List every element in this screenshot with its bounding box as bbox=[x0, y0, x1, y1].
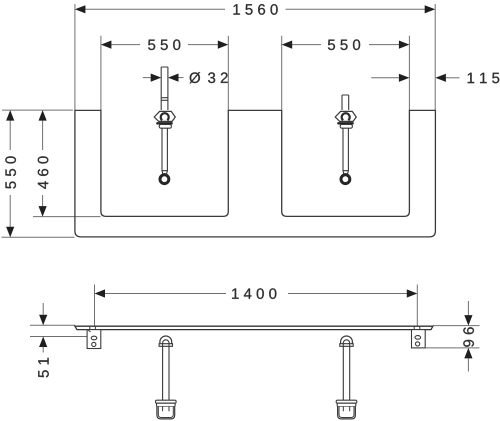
dim 550 left arrows bbox=[101, 41, 112, 49]
trap 2 pipe inside cup bbox=[343, 407, 349, 412]
dim 550 vertical extension top bbox=[2, 109, 73, 111]
drain 1 pipe joint bbox=[161, 97, 168, 99]
dim 550 left label bbox=[148, 39, 180, 50]
trap 1 arch inner bbox=[163, 340, 169, 346]
trap 1 nut bbox=[156, 400, 177, 403]
drain 2 flange hexagon bbox=[335, 111, 356, 121]
dim 96 line below bbox=[467, 358, 469, 371]
dim 550 vertical arrows bbox=[6, 110, 14, 121]
dim 1400 extension line left bbox=[94, 285, 96, 327]
dim 460 vertical arrows bbox=[39, 110, 47, 121]
trap 1 cup inner bbox=[158, 407, 173, 418]
dim 550 vertical line bbox=[9, 120, 11, 150]
drain 2 flange ring bbox=[342, 113, 350, 120]
trap 2 pipe bbox=[343, 346, 349, 409]
dim 115 line left bbox=[371, 77, 399, 79]
dim 51 arrows bbox=[39, 315, 47, 326]
trap 2 cup inner bbox=[339, 407, 354, 418]
dim 96 extension top bbox=[433, 325, 480, 327]
dim 550 vertical extension bottom bbox=[2, 236, 75, 238]
bracket left slot bbox=[91, 336, 97, 340]
dim 51 line above bbox=[42, 303, 44, 315]
drain 2 connector bbox=[343, 171, 348, 174]
drain 1 pipe lower bbox=[162, 128, 167, 171]
dim 460 vertical extension bottom bbox=[33, 216, 101, 218]
drain 1 flange ring bbox=[161, 113, 169, 120]
trap 1 arch outer bbox=[160, 336, 172, 344]
trap 2 nut bbox=[336, 400, 357, 403]
drain 1 connector bbox=[162, 171, 167, 174]
drain 2 pull ring bbox=[341, 175, 350, 184]
dim 51 extension bottom bbox=[30, 336, 87, 338]
dim diameter 32 line right bbox=[179, 77, 184, 79]
dim 1560 label bbox=[233, 4, 277, 15]
drain 1 flange hexagon bbox=[154, 111, 175, 121]
bottom plate bbox=[75, 326, 433, 329]
dim diameter 32 line left bbox=[143, 77, 151, 79]
dim 1560 arrow left bbox=[75, 5, 86, 13]
drain 2 dark gasket bbox=[337, 122, 354, 124]
dim 460 vertical label bbox=[38, 156, 49, 189]
dim 550 left extension lines bbox=[100, 36, 102, 111]
dim 550 right extension lines bbox=[281, 36, 283, 111]
trap 1 arch rim bbox=[159, 344, 172, 347]
dim 51 extension top bbox=[30, 324, 75, 326]
drain 2 lower gasket bbox=[340, 124, 352, 128]
dim diameter 32 label bbox=[190, 72, 201, 83]
drain 1 pipe upper bbox=[161, 67, 168, 110]
bracket right hole bbox=[416, 342, 420, 346]
dim diameter 32 arrow right bbox=[168, 74, 179, 82]
dim 1400 extension line right bbox=[416, 285, 418, 327]
dim 115 line right bbox=[446, 77, 460, 79]
dim 1400 arrows bbox=[95, 289, 106, 297]
dim 1560 extension line right bbox=[434, 4, 436, 110]
dim 115 arrow right bbox=[435, 74, 446, 82]
dim 1560 extension line left bbox=[74, 4, 76, 110]
dim 550 right label bbox=[328, 39, 360, 50]
dim 460 vertical line bbox=[42, 120, 44, 150]
dim 1560 line bbox=[85, 8, 225, 10]
trap 2 arch rim bbox=[340, 344, 353, 347]
trap 2 arch inner bbox=[343, 340, 349, 347]
bracket left hole bbox=[92, 342, 96, 346]
dim 51 label bbox=[38, 358, 48, 378]
dim 1400 line bbox=[105, 293, 226, 295]
trap 2 cup bbox=[338, 407, 356, 419]
dim 96 line above bbox=[467, 301, 469, 315]
drain 2 pipe lower bbox=[343, 128, 348, 171]
dim 115 label bbox=[468, 73, 500, 83]
dim 51 line below bbox=[42, 347, 44, 353]
dim 550 right arrows bbox=[282, 41, 293, 49]
bracket left bbox=[87, 330, 101, 349]
dim 115 arrow left bbox=[399, 74, 410, 82]
bracket right slot bbox=[415, 336, 421, 340]
dim 1560 arrow right bbox=[425, 5, 436, 13]
console outline with two basin cutouts bbox=[75, 110, 436, 236]
trap 1 pipe inside cup bbox=[163, 407, 169, 412]
dim 550 right line bbox=[292, 44, 321, 46]
dim 1400 label bbox=[232, 288, 276, 299]
dim 96 extension bottom bbox=[426, 347, 480, 349]
dim 550 vertical label bbox=[5, 156, 16, 188]
drain 1 lower gasket bbox=[159, 124, 171, 128]
dim 96 label bbox=[463, 327, 474, 347]
drain 2 pipe upper bbox=[342, 95, 349, 110]
dim 550 left line bbox=[111, 44, 140, 46]
trap 2 arch outer bbox=[341, 336, 353, 344]
bracket left hook marks bbox=[88, 327, 95, 332]
drain 1 dark gasket bbox=[156, 122, 173, 124]
bracket right hook marks bbox=[414, 327, 420, 330]
drain 1 pull ring bbox=[160, 175, 169, 184]
trap 1 cup bbox=[157, 407, 175, 419]
dim diameter 32 arrow left bbox=[151, 74, 162, 82]
dim 96 arrows bbox=[464, 315, 472, 326]
trap 1 pipe bbox=[163, 346, 169, 409]
bracket right bbox=[412, 330, 426, 348]
